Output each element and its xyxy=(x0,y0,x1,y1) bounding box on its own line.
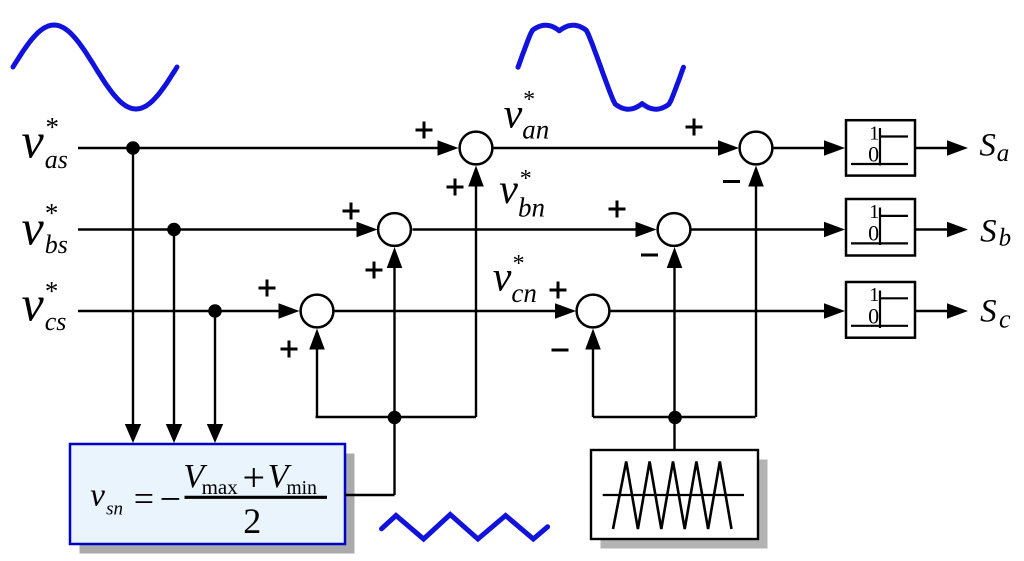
svg-text:max: max xyxy=(202,475,239,499)
svg-text:S: S xyxy=(979,127,996,163)
svg-text:+: + xyxy=(243,455,266,500)
svg-text:v: v xyxy=(499,167,518,213)
svg-text:cn: cn xyxy=(511,278,536,308)
svg-text:*: * xyxy=(46,112,60,142)
svg-text:S: S xyxy=(980,294,997,330)
svg-text:an: an xyxy=(522,115,549,145)
svg-text:v: v xyxy=(90,478,105,514)
svg-text:0: 0 xyxy=(868,304,879,329)
svg-text:v: v xyxy=(22,112,45,168)
svg-text:as: as xyxy=(45,145,68,174)
svg-text:bs: bs xyxy=(45,230,68,259)
svg-text:v: v xyxy=(22,276,45,332)
svg-text:b: b xyxy=(999,225,1012,252)
svg-text:*: * xyxy=(513,251,525,277)
svg-text:*: * xyxy=(45,276,59,306)
svg-text:*: * xyxy=(523,87,535,113)
svg-text:bn: bn xyxy=(518,193,545,223)
svg-text:a: a xyxy=(997,140,1010,167)
svg-text:v: v xyxy=(22,199,45,255)
svg-text:sn: sn xyxy=(106,499,123,520)
svg-text:−: − xyxy=(160,478,181,520)
svg-text:S: S xyxy=(980,214,997,250)
svg-text:0: 0 xyxy=(868,141,879,166)
svg-text:cs: cs xyxy=(45,307,67,336)
svg-text:*: * xyxy=(45,198,59,228)
svg-text:v: v xyxy=(504,91,523,137)
svg-text:v: v xyxy=(493,254,512,300)
svg-text:2: 2 xyxy=(243,501,261,541)
svg-text:min: min xyxy=(287,478,318,499)
svg-text:*: * xyxy=(520,166,532,192)
svg-text:c: c xyxy=(999,305,1011,334)
svg-text:=: = xyxy=(134,479,154,519)
svg-text:0: 0 xyxy=(868,221,879,246)
